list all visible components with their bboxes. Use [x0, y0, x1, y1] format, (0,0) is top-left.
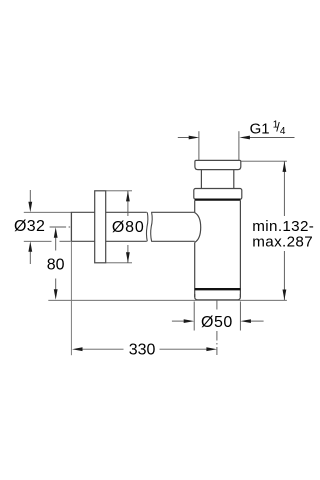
svg-text:G1: G1 [250, 120, 270, 137]
svg-text:Ø50: Ø50 [201, 314, 233, 331]
svg-text:Ø32: Ø32 [14, 218, 45, 235]
svg-text:80: 80 [47, 257, 65, 274]
svg-text:4: 4 [280, 126, 286, 137]
svg-text:max.287: max.287 [252, 234, 313, 251]
svg-text:330: 330 [129, 342, 156, 359]
svg-text:Ø80: Ø80 [112, 219, 145, 236]
